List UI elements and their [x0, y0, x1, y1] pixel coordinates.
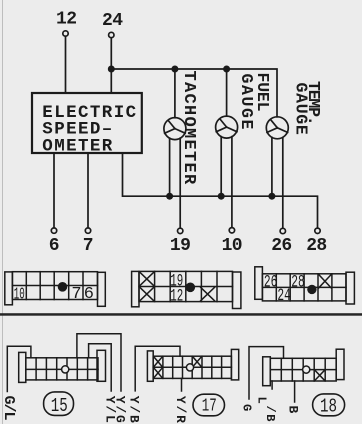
svg-text:/B: /B — [263, 406, 277, 424]
svg-text:15: 15 — [51, 395, 68, 417]
svg-text:24: 24 — [102, 11, 123, 31]
svg-text:OMETER: OMETER — [42, 136, 113, 156]
svg-text:Y/G: Y/G — [112, 396, 127, 424]
top supply bus wire — [111, 69, 277, 117]
middle band: connector face views — [5, 267, 355, 309]
wire terminal 24 down — [110, 38, 112, 93]
terminal 10 circle — [229, 228, 234, 233]
connector B blocked cavity X top-left — [140, 272, 154, 286]
svg-text:GAUGE: GAUGE — [237, 74, 256, 132]
connector 17 bottom leader (Y/R) — [181, 378, 183, 391]
terminal 7 circle — [85, 228, 90, 233]
connector 18 body — [270, 358, 336, 381]
connector 18 leader B — [294, 381, 296, 402]
connector 15 cavity circle — [62, 366, 69, 373]
wire speedometer to terminal 6 — [53, 153, 55, 228]
svg-text:26: 26 — [271, 236, 291, 256]
connector 17 blocked cavity X bottom-left — [154, 368, 162, 378]
connector 18 right tab — [336, 349, 344, 379]
junction dot temp bottom — [268, 193, 275, 200]
connector 17 body — [153, 356, 231, 378]
connector 18 blocked cavity X bottom row — [315, 370, 325, 380]
svg-text:12: 12 — [56, 10, 76, 30]
page left edge line — [2, 0, 4, 424]
connector 17 cavity circle — [186, 364, 193, 371]
connector B blocked cavity X bottom-left — [140, 287, 154, 301]
connector A right tab — [98, 272, 106, 306]
terminal 19 circle — [178, 228, 183, 233]
connector 18 oval tag — [313, 394, 345, 416]
connector block A outline — [12, 272, 97, 300]
terminal 24 circle — [109, 32, 114, 37]
connector B blocked cavity X bottom row — [201, 287, 215, 301]
connector 17 left tab — [147, 351, 153, 381]
terminal 26 circle — [280, 228, 285, 233]
connector 17 blocked cavity X top row — [193, 357, 201, 367]
connector block C outline — [262, 274, 346, 301]
svg-text:Y/B: Y/B — [127, 396, 142, 424]
junction dot fuel gauge top — [223, 66, 230, 73]
connector B cavity dot — [186, 283, 196, 293]
svg-text:GAUGE: GAUGE — [292, 83, 311, 136]
svg-text:10: 10 — [14, 286, 25, 305]
junction dot tach bottom — [166, 193, 173, 200]
wire fuel left lead to bus — [220, 137, 222, 197]
wire temp left lead to bus — [271, 137, 273, 196]
svg-text:7: 7 — [71, 285, 81, 304]
connector 15 left tab — [19, 352, 26, 382]
terminal 12 circle — [63, 31, 68, 36]
wire speedometer to terminal 7 — [87, 153, 89, 228]
temp gauge M3 — [266, 117, 288, 139]
connector 15 leader bracket inner right — [89, 344, 112, 391]
connector block B outline — [139, 271, 233, 301]
connector B right tab — [233, 272, 241, 309]
wire fuel right lead to terminal 10 — [231, 137, 233, 228]
wire fuel gauge top lead — [226, 69, 228, 116]
svg-text:17: 17 — [202, 396, 217, 417]
connector 15 leader bracket left (G/L) — [7, 346, 31, 391]
wire terminal 12 to speedometer — [65, 36, 67, 93]
connector 18 cavity circle — [303, 366, 310, 373]
svg-text:12: 12 — [170, 286, 183, 306]
svg-text:19: 19 — [170, 236, 190, 256]
svg-text:B: B — [286, 406, 301, 414]
svg-text:10: 10 — [222, 236, 242, 256]
electric speedometer box U1 — [32, 93, 142, 153]
connector 15 body — [26, 358, 98, 380]
connector C cavity dot — [307, 285, 316, 294]
fuel gauge M2 — [216, 116, 238, 138]
wire tach left lead to bus — [169, 138, 171, 196]
wire speedometer to ground bus — [123, 153, 318, 228]
connector 15 leader bracket outer right — [77, 334, 121, 391]
junction dot tachometer top — [171, 66, 178, 73]
connector 17 leader bracket left (Y/B) — [135, 346, 180, 391]
connector 18 leader bracket left (G) — [249, 347, 284, 399]
svg-text:L: L — [255, 397, 269, 404]
bottom band: harness connectors — [0, 334, 345, 424]
connector 18 left tab — [263, 357, 271, 386]
svg-text:28: 28 — [306, 236, 326, 256]
terminal 6 circle — [51, 228, 56, 233]
terminal 28 circle — [315, 228, 320, 233]
connector 18 leader L/B — [271, 381, 273, 389]
svg-text:TACHOMETER: TACHOMETER — [179, 71, 198, 186]
svg-text:G/L: G/L — [0, 396, 17, 421]
svg-text:28: 28 — [291, 272, 305, 292]
connector 17 oval tag — [193, 394, 225, 416]
svg-text:6: 6 — [84, 285, 94, 304]
svg-text:18: 18 — [320, 396, 337, 418]
svg-text:24: 24 — [277, 286, 291, 306]
connector 15 oval tag — [44, 392, 74, 416]
junction dot on 24 wire — [108, 66, 115, 73]
connector 17 right tab — [231, 349, 238, 380]
connector A cavity dot — [58, 282, 68, 292]
svg-text:7: 7 — [83, 236, 94, 256]
svg-text:26: 26 — [264, 272, 278, 292]
connector A left tab — [5, 272, 13, 305]
tachometer gauge M1 — [164, 118, 186, 140]
connector 15 right tab — [97, 350, 106, 381]
wire temp right lead to terminal 26 — [282, 137, 284, 228]
connector B left tab — [132, 271, 139, 306]
wire tachometer top lead — [174, 69, 176, 118]
section separator line — [0, 313, 362, 316]
svg-text:Y/R: Y/R — [173, 396, 188, 424]
connector C right tab — [346, 272, 354, 304]
wire tach right lead to terminal 19 — [179, 138, 181, 228]
connector C blocked cavity X — [319, 275, 332, 288]
svg-text:G: G — [239, 404, 253, 411]
svg-text:6: 6 — [49, 236, 60, 256]
connector 17 blocked cavity X top-left — [154, 357, 162, 367]
connector C left tab — [255, 267, 263, 300]
junction dot fuel bottom — [218, 193, 225, 200]
